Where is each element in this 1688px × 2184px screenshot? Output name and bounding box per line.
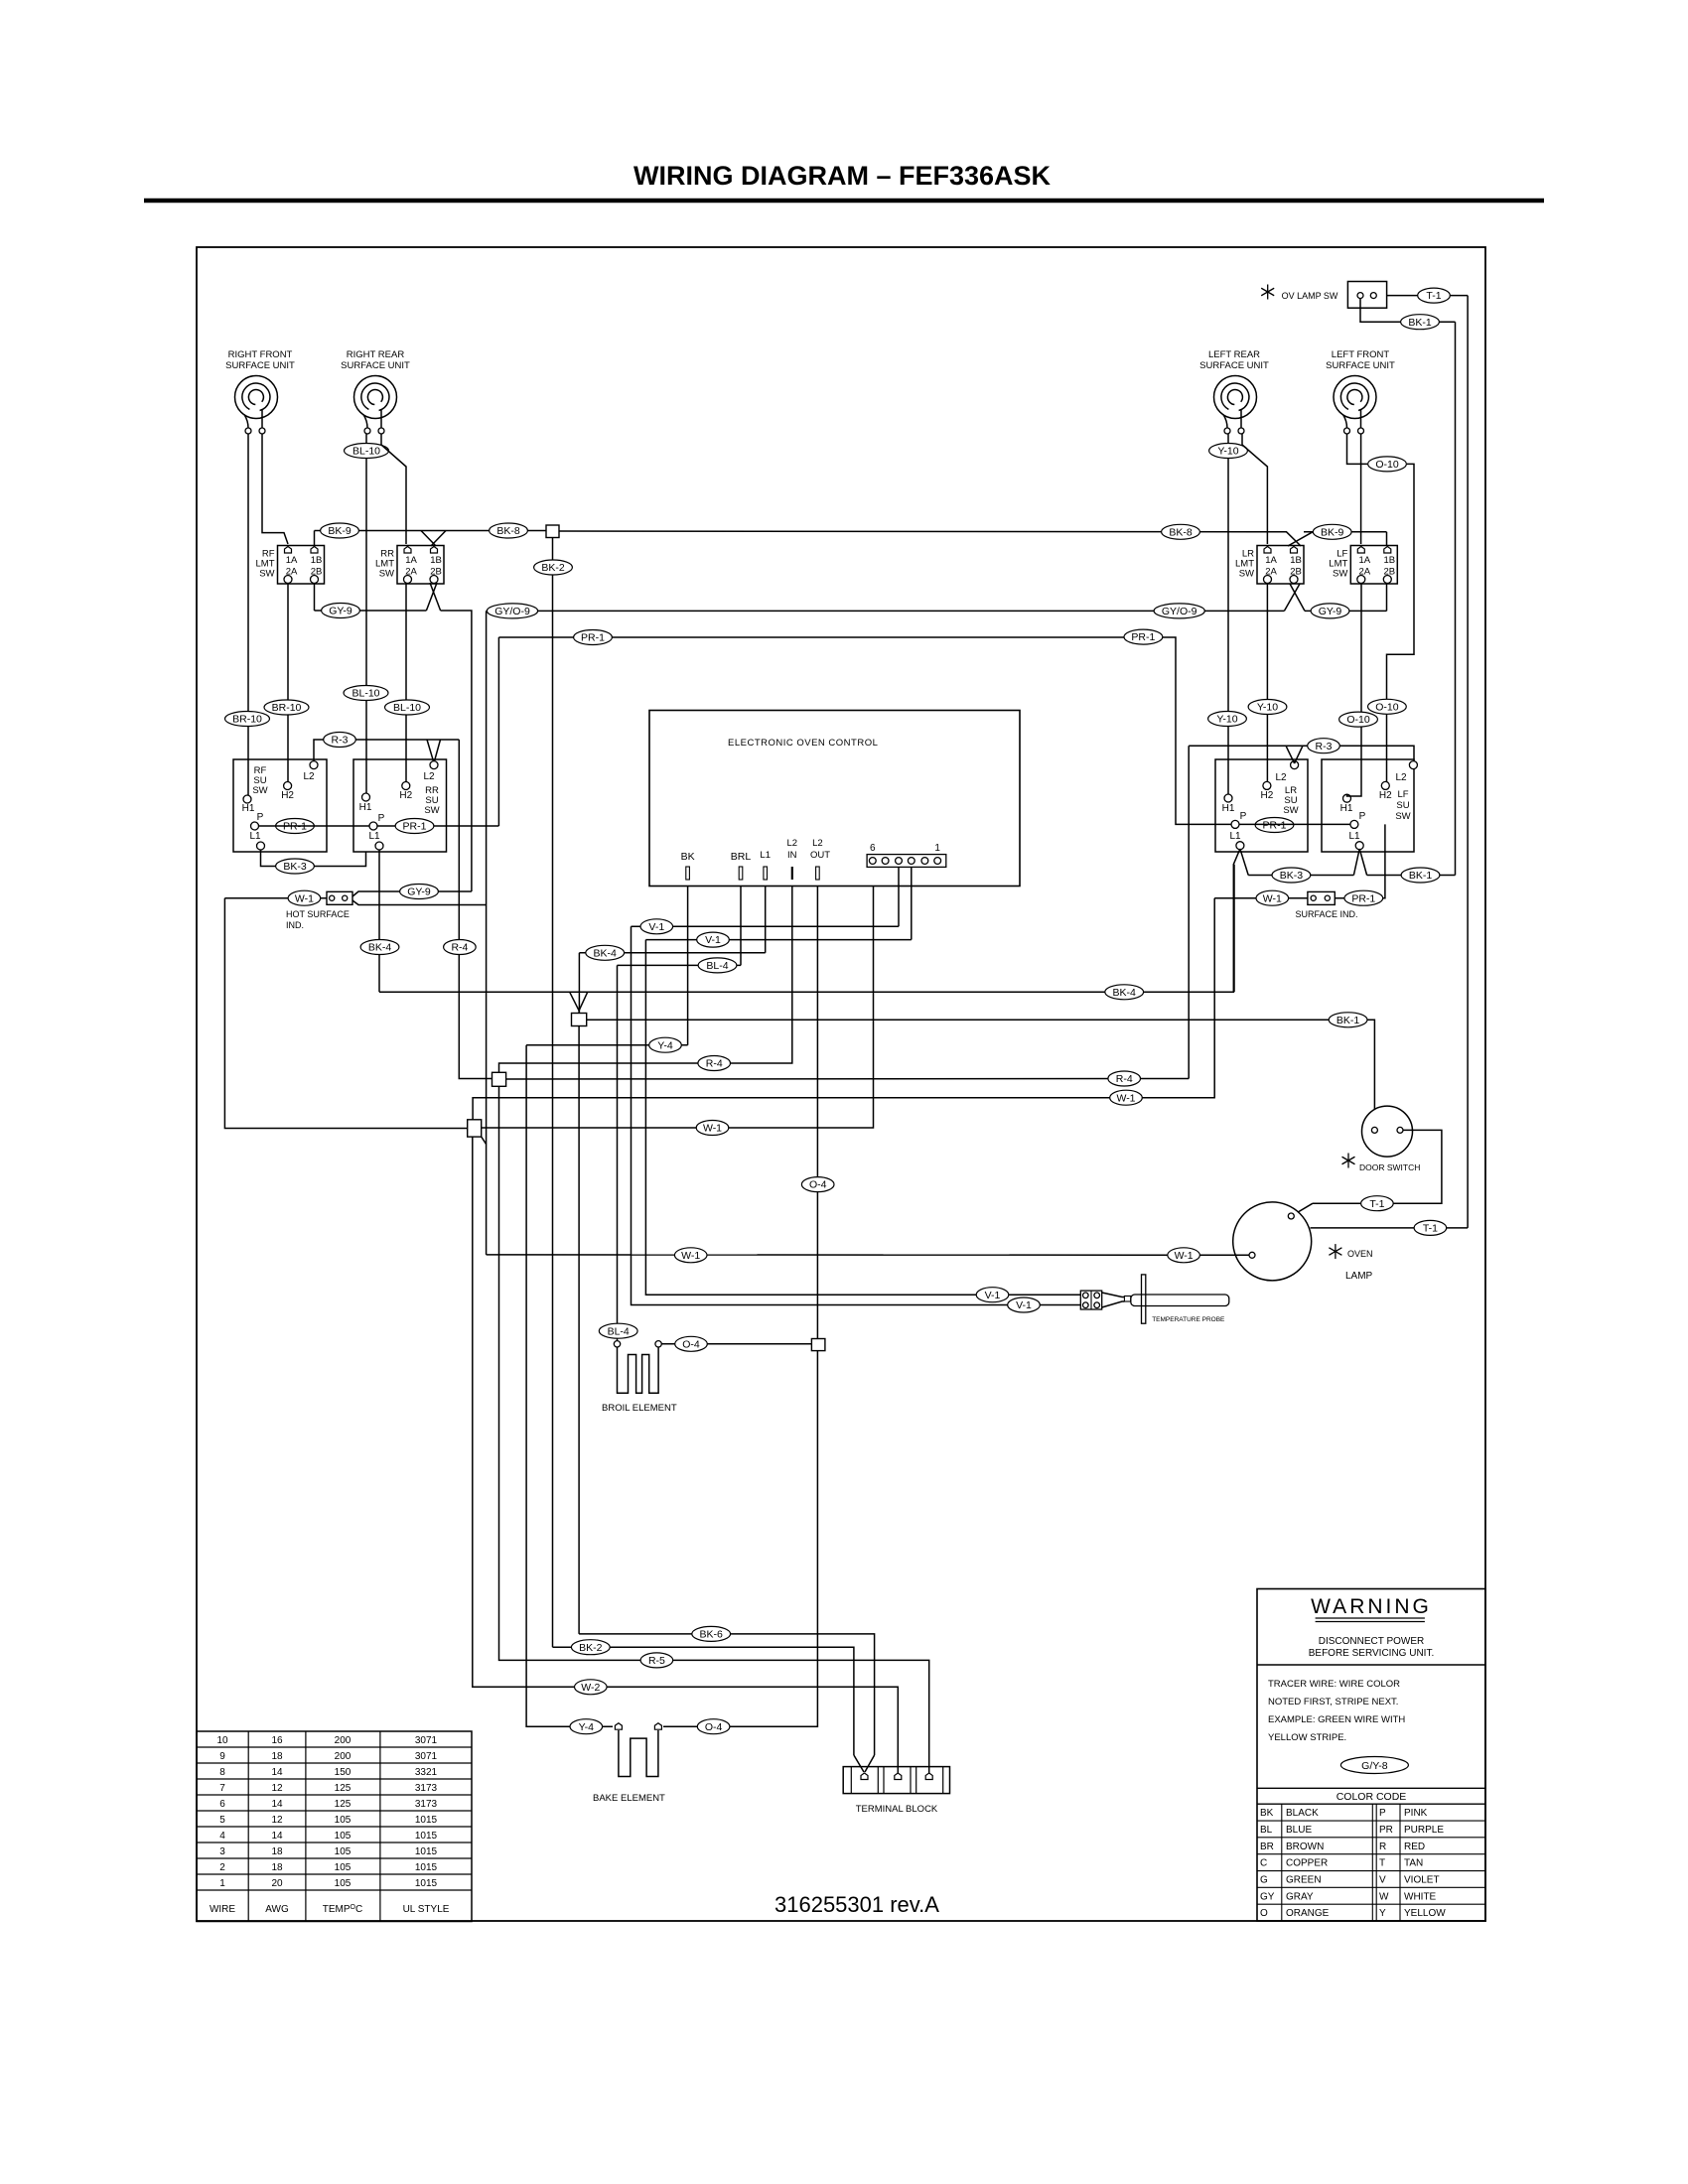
svg-text:3: 3 <box>219 1846 225 1857</box>
label Y-4 upper <box>649 1037 682 1052</box>
svg-text:1: 1 <box>219 1878 225 1889</box>
svg-text:BL-4: BL-4 <box>608 1325 630 1337</box>
label T-1 lamp <box>1414 1220 1447 1235</box>
svg-text:1015: 1015 <box>415 1862 438 1873</box>
svg-text:O-4: O-4 <box>705 1721 723 1733</box>
svg-text:BK-6: BK-6 <box>700 1629 724 1641</box>
LR H1 terminal <box>1224 794 1232 802</box>
svg-text:BK-1: BK-1 <box>1408 317 1432 329</box>
svg-text:GRAY: GRAY <box>1286 1891 1314 1902</box>
svg-text:O-10: O-10 <box>1346 714 1370 726</box>
switch RF SU SW box <box>233 759 327 852</box>
svg-text:BR-10: BR-10 <box>232 714 262 726</box>
label BK-2 lower <box>571 1640 610 1655</box>
wire L2OUT drop <box>816 887 818 1339</box>
sensor TEMPERATURE PROBE <box>1080 1275 1229 1323</box>
svg-text:2A: 2A <box>286 567 298 578</box>
label Y-10 upper <box>1209 444 1248 459</box>
LF L2 terminal <box>1409 761 1417 769</box>
svg-text:COLOR CODE: COLOR CODE <box>1336 1791 1407 1803</box>
svg-text:BL: BL <box>1260 1825 1273 1836</box>
svg-text:BR: BR <box>1260 1842 1274 1852</box>
wire T-1 vertical <box>1467 296 1469 1228</box>
label BK-3 left <box>276 859 315 874</box>
svg-text:2B: 2B <box>1383 567 1395 578</box>
label BL-4 lower <box>599 1323 637 1338</box>
svg-text:SURFACE UNIT: SURFACE UNIT <box>1199 360 1269 371</box>
heating coil LR surface unit <box>1214 376 1257 435</box>
svg-text:WARNING: WARNING <box>1311 1595 1432 1618</box>
svg-text:BK: BK <box>681 851 695 863</box>
svg-text:G/Y-8: G/Y-8 <box>1361 1760 1388 1772</box>
label O-10 on LF H1 wire <box>1339 712 1378 727</box>
broil right terminal <box>655 1341 661 1347</box>
title rule <box>144 199 1544 204</box>
wire GY-9 to hot surface <box>352 891 472 896</box>
svg-text:SW: SW <box>1395 811 1410 822</box>
label BK-1 right <box>1401 868 1440 883</box>
svg-text:SW: SW <box>1239 569 1254 580</box>
bake left terminal <box>615 1723 622 1730</box>
svg-text:P: P <box>257 812 264 823</box>
svg-text:EXAMPLE: GREEN WIRE WITH: EXAMPLE: GREEN WIRE WITH <box>1268 1714 1405 1725</box>
svg-text:150: 150 <box>335 1767 352 1778</box>
svg-text:GY/O-9: GY/O-9 <box>494 606 530 617</box>
svg-text:L2: L2 <box>423 771 435 782</box>
svg-text:AWG: AWG <box>265 1904 289 1915</box>
svg-text:BROIL ELEMENT: BROIL ELEMENT <box>602 1403 677 1414</box>
svg-text:GY-9: GY-9 <box>329 606 352 617</box>
wire RR L1 drop <box>378 850 380 992</box>
svg-text:3071: 3071 <box>415 1735 438 1746</box>
svg-text:WIRE: WIRE <box>210 1904 235 1915</box>
svg-text:1B: 1B <box>1290 555 1302 566</box>
svg-text:IND.: IND. <box>286 920 304 930</box>
heating element BAKE ELEMENT <box>619 1730 658 1777</box>
svg-text:GREEN: GREEN <box>1286 1875 1322 1886</box>
svg-text:O: O <box>1260 1908 1268 1919</box>
LF H2 terminal <box>1381 781 1389 789</box>
label W-1 mid <box>696 1121 729 1136</box>
svg-text:R-4: R-4 <box>451 942 468 954</box>
svg-text:PR-1: PR-1 <box>403 821 427 833</box>
wire T-1 diag to lamp <box>1294 1203 1313 1214</box>
svg-text:BK-3: BK-3 <box>1280 870 1304 882</box>
wire RF 1B up to BK-9 run <box>314 531 316 548</box>
svg-text:1A: 1A <box>1265 555 1277 566</box>
switch LR LMT SW <box>1235 546 1304 585</box>
wire BK-4 run <box>379 991 1234 993</box>
svg-text:1A: 1A <box>286 555 298 566</box>
wire GY-9 into LF 2B <box>1386 584 1388 612</box>
junction square BK <box>572 1014 587 1026</box>
svg-text:H2: H2 <box>1261 790 1274 801</box>
svg-text:C: C <box>1260 1858 1267 1869</box>
svg-text:105: 105 <box>335 1815 352 1826</box>
svg-text:RIGHT REAR: RIGHT REAR <box>347 349 405 360</box>
label GY/O-9 right <box>1154 604 1204 618</box>
svg-text:R: R <box>1379 1842 1386 1852</box>
wire conn4 drop <box>898 868 900 926</box>
svg-text:6: 6 <box>219 1799 225 1810</box>
wire hot surface lower branch <box>352 900 487 905</box>
LR L1 terminal <box>1236 842 1244 850</box>
wire BK-2 drop <box>552 538 554 1648</box>
svg-text:PR-1: PR-1 <box>1351 892 1375 904</box>
label O-10 top <box>1368 457 1407 472</box>
LR H2 terminal <box>1263 781 1271 789</box>
wire W-1 left drop <box>224 898 467 1129</box>
svg-text:O-10: O-10 <box>1375 459 1399 471</box>
label V-1 b <box>697 932 730 947</box>
svg-text:TAN: TAN <box>1404 1858 1423 1869</box>
svg-text:125: 125 <box>335 1799 352 1810</box>
svg-text:WHITE: WHITE <box>1404 1891 1437 1902</box>
svg-text:SURFACE IND.: SURFACE IND. <box>1295 909 1357 919</box>
label R-4 upper <box>698 1056 731 1071</box>
svg-text:12: 12 <box>271 1783 283 1794</box>
svg-text:BK: BK <box>1260 1808 1274 1819</box>
wire W-1 long run <box>473 1098 1215 1120</box>
svg-text:W: W <box>1379 1891 1389 1902</box>
wire BK-9 run right <box>1304 531 1387 533</box>
label BL-10 on RR H2 wire <box>385 700 430 715</box>
label BK-9 right <box>1313 524 1351 539</box>
svg-text:SW: SW <box>379 569 394 580</box>
svg-text:8: 8 <box>219 1767 225 1778</box>
heating coil RR surface unit <box>354 376 397 435</box>
svg-text:L2: L2 <box>303 771 315 782</box>
wire BRL pin drop <box>740 887 742 966</box>
heating coil LF surface unit <box>1334 376 1376 435</box>
svg-text:1015: 1015 <box>415 1878 438 1889</box>
svg-text:5: 5 <box>219 1815 225 1826</box>
svg-text:BK-2: BK-2 <box>579 1642 603 1654</box>
wire W-1 to conn6 <box>482 887 874 1129</box>
label BK-4 branch <box>586 945 625 960</box>
wire RF left terminal to H1 <box>247 434 249 795</box>
wire GY-9 run right <box>1305 610 1387 612</box>
svg-text:H2: H2 <box>1379 790 1392 801</box>
svg-text:T: T <box>1379 1858 1385 1869</box>
svg-text:VIOLET: VIOLET <box>1404 1875 1440 1886</box>
label BR-10 on RF H2 wire <box>264 700 309 715</box>
svg-text:3071: 3071 <box>415 1751 438 1762</box>
label W-1 lamp left <box>674 1248 707 1263</box>
asterisk oven lamp <box>1329 1244 1341 1259</box>
svg-text:W-1: W-1 <box>703 1123 722 1135</box>
wire BK-8 run to right side <box>559 530 1287 533</box>
svg-text:UL STYLE: UL STYLE <box>403 1904 450 1915</box>
svg-text:1015: 1015 <box>415 1831 438 1842</box>
svg-text:TEMPERATURE PROBE: TEMPERATURE PROBE <box>1152 1316 1225 1323</box>
svg-text:HOT SURFACE: HOT SURFACE <box>286 909 350 919</box>
label V-1 a <box>640 919 673 934</box>
wire BL-4 drop <box>617 965 619 1340</box>
svg-text:BL-10: BL-10 <box>352 688 379 700</box>
label PR-1 in LR box <box>1255 818 1294 833</box>
label V-1 probe lower <box>1008 1297 1041 1312</box>
heating coil RF surface unit <box>235 376 278 435</box>
label Y-4 lower <box>570 1719 603 1734</box>
label R-4 long <box>1108 1071 1141 1086</box>
wire GY-9 run <box>315 610 427 612</box>
svg-text:10: 10 <box>216 1735 228 1746</box>
wire LR left terminal to H1 <box>1227 434 1229 794</box>
svg-text:2A: 2A <box>1358 567 1370 578</box>
svg-text:1B: 1B <box>311 555 323 566</box>
svg-text:BK-3: BK-3 <box>283 861 307 873</box>
svg-text:RIGHT FRONT: RIGHT FRONT <box>228 349 293 360</box>
wire PR-1 vertical left <box>497 637 499 826</box>
svg-text:BL-10: BL-10 <box>393 702 421 714</box>
wire BK-4 rise to LR L1 <box>1233 865 1235 993</box>
svg-text:BK-1: BK-1 <box>1409 870 1433 882</box>
wire R-3 right drop <box>1188 746 1190 1078</box>
RF P terminal <box>251 822 259 830</box>
switch LF LMT SW <box>1329 546 1397 585</box>
svg-text:200: 200 <box>335 1751 352 1762</box>
svg-text:GY: GY <box>1260 1891 1275 1902</box>
label BK-4 right <box>1105 985 1144 1000</box>
label R-4 on drop <box>444 940 477 955</box>
svg-text:TERMINAL BLOCK: TERMINAL BLOCK <box>856 1804 938 1815</box>
svg-text:LEFT REAR: LEFT REAR <box>1208 349 1260 360</box>
svg-text:Y: Y <box>1379 1908 1386 1919</box>
svg-text:O-4: O-4 <box>809 1179 827 1191</box>
asterisk ov lamp sw <box>1261 285 1274 300</box>
heating element BROIL ELEMENT <box>618 1347 659 1393</box>
indicator SURFACE IND <box>1308 891 1335 904</box>
svg-text:O-4: O-4 <box>682 1338 700 1350</box>
asterisk door switch <box>1342 1154 1355 1168</box>
label PR-1 mid-left <box>574 630 613 645</box>
svg-text:PR: PR <box>1379 1825 1393 1836</box>
svg-text:1015: 1015 <box>415 1815 438 1826</box>
svg-text:BRL: BRL <box>731 851 752 863</box>
junction square BK-8 <box>546 525 559 538</box>
wire X into RR 1B <box>421 531 436 547</box>
svg-text:W-1: W-1 <box>1116 1092 1135 1104</box>
svg-text:2B: 2B <box>430 567 442 578</box>
svg-text:L1: L1 <box>368 831 380 842</box>
broil left terminal <box>614 1341 620 1347</box>
wire RF 2A to H2 <box>287 584 289 782</box>
indicator HOT SURFACE IND <box>327 891 352 904</box>
label BK-1 long <box>1329 1013 1367 1027</box>
svg-text:4: 4 <box>219 1831 225 1842</box>
svg-text:105: 105 <box>335 1862 352 1873</box>
label BL-10 mid <box>344 686 388 701</box>
wire RR left terminal to H1 <box>365 434 367 793</box>
svg-text:BK-9: BK-9 <box>1321 526 1344 538</box>
svg-text:BK-8: BK-8 <box>1169 526 1193 538</box>
label BK-8 right <box>1162 524 1200 539</box>
svg-text:YELLOW: YELLOW <box>1404 1908 1446 1919</box>
switch RR LMT SW <box>375 546 444 585</box>
wire O-4 broil <box>661 1343 811 1345</box>
label BK-2 on drop <box>534 560 573 575</box>
svg-text:BEFORE SERVICING UNIT.: BEFORE SERVICING UNIT. <box>1309 1648 1435 1659</box>
wire BK-9 into LF 1B <box>1386 532 1388 546</box>
wire R-3 right run <box>1189 746 1414 761</box>
wire X into LR 1B <box>1287 532 1301 546</box>
wire V-1 lower run <box>645 939 911 941</box>
svg-text:2B: 2B <box>1290 567 1302 578</box>
wire BK-1 top <box>1360 299 1456 323</box>
wire L1 V LR left leg <box>1233 849 1240 992</box>
wire door switch to T-1 <box>1313 1130 1442 1203</box>
label BL-10 upper <box>345 444 389 459</box>
svg-text:1015: 1015 <box>415 1846 438 1857</box>
switch DOOR SWITCH <box>1362 1106 1413 1157</box>
wire X below RR 2B <box>426 583 437 611</box>
wire R-3 drop to junction <box>459 740 492 1079</box>
wire LF right terminal to 1A <box>1360 434 1362 544</box>
svg-text:1B: 1B <box>1383 555 1395 566</box>
svg-text:SW: SW <box>259 569 274 580</box>
svg-text:P: P <box>1240 811 1247 822</box>
svg-text:W-2: W-2 <box>581 1682 600 1694</box>
svg-text:WIRING DIAGRAM – FEF336ASK: WIRING DIAGRAM – FEF336ASK <box>633 161 1052 191</box>
svg-text:V-1: V-1 <box>985 1290 1001 1301</box>
wire RF 2B to GY-9 run <box>314 584 316 611</box>
svg-text:V-1: V-1 <box>1016 1299 1032 1311</box>
svg-text:R-4: R-4 <box>706 1058 723 1070</box>
svg-text:ELECTRONIC OVEN CONTROL: ELECTRONIC OVEN CONTROL <box>728 738 878 749</box>
svg-text:105: 105 <box>335 1831 352 1842</box>
svg-text:SW: SW <box>1283 805 1298 816</box>
svg-text:SU: SU <box>1396 800 1409 811</box>
wire BK-3 right run <box>1248 875 1353 877</box>
svg-text:G: G <box>1260 1875 1268 1886</box>
LF H1 terminal <box>1343 794 1351 802</box>
LR P terminal <box>1231 820 1239 828</box>
label GY-9 left <box>322 604 360 618</box>
svg-text:P: P <box>1359 811 1366 822</box>
label GY/O-9 left <box>487 604 537 618</box>
svg-text:L2: L2 <box>1275 772 1287 783</box>
RR L1 terminal <box>375 842 383 850</box>
LR L2 terminal <box>1291 761 1299 769</box>
wire P row left <box>259 825 499 827</box>
svg-text:BK-2: BK-2 <box>541 562 565 574</box>
lamp OVEN LAMP <box>1233 1202 1312 1281</box>
svg-text:OVEN: OVEN <box>1347 1249 1373 1259</box>
wire PR-1 long run <box>498 637 1231 824</box>
label T-1 door <box>1361 1196 1394 1211</box>
svg-text:Y-10: Y-10 <box>1257 702 1278 714</box>
svg-text:T-1: T-1 <box>1426 290 1441 302</box>
wire X below LR 2B <box>1284 584 1300 611</box>
label O-4 bake <box>697 1719 730 1734</box>
switch LR SU SW box <box>1215 759 1308 852</box>
RR L2 terminal <box>430 761 438 769</box>
wire BK-4 branch run <box>579 952 765 954</box>
svg-text:12: 12 <box>271 1815 283 1826</box>
wire V into LR L2 <box>1286 746 1295 763</box>
wire O-10 to L2 drop <box>1387 464 1415 781</box>
svg-text:BLUE: BLUE <box>1286 1825 1312 1836</box>
wire W junction diagonal <box>482 1137 487 1144</box>
label PR-1 in RF box <box>276 819 315 834</box>
wire BK-2 run <box>553 1647 854 1755</box>
junction square W <box>468 1120 482 1137</box>
svg-text:SURFACE UNIT: SURFACE UNIT <box>225 360 295 371</box>
svg-text:H2: H2 <box>281 790 294 801</box>
svg-text:COPPER: COPPER <box>1286 1858 1328 1869</box>
label W-2 <box>575 1680 608 1695</box>
wire GY/O-9 drop <box>486 611 488 1255</box>
wire W-2 drop <box>473 1137 899 1773</box>
wire PR-1 surface ind <box>1335 824 1385 897</box>
svg-text:NOTED FIRST, STRIPE NEXT.: NOTED FIRST, STRIPE NEXT. <box>1268 1697 1398 1707</box>
svg-text:Y-4: Y-4 <box>579 1721 595 1733</box>
svg-text:Y-10: Y-10 <box>1217 446 1238 458</box>
svg-text:14: 14 <box>271 1799 283 1810</box>
wire BK-6 drop <box>578 1026 580 1634</box>
svg-text:PR-1: PR-1 <box>581 632 605 644</box>
svg-text:L1: L1 <box>1229 831 1241 842</box>
svg-text:BK-4: BK-4 <box>1113 987 1137 999</box>
svg-text:H1: H1 <box>359 802 372 813</box>
wire R-5 drop <box>499 1086 929 1773</box>
svg-text:PINK: PINK <box>1404 1808 1428 1819</box>
svg-text:BL-10: BL-10 <box>352 446 380 458</box>
svg-text:2: 2 <box>219 1862 225 1873</box>
svg-text:PURPLE: PURPLE <box>1404 1825 1444 1836</box>
svg-text:Y-4: Y-4 <box>657 1039 673 1051</box>
svg-text:105: 105 <box>335 1878 352 1889</box>
svg-text:316255301 rev.A: 316255301 rev.A <box>774 1892 939 1917</box>
terminal block <box>843 1767 949 1794</box>
wire LF left terminal to O-10 <box>1347 434 1368 464</box>
wire conn3 drop <box>911 868 913 940</box>
svg-text:O-10: O-10 <box>1375 701 1399 713</box>
svg-text:6: 6 <box>870 843 876 854</box>
svg-text:V: V <box>1379 1875 1386 1886</box>
label W-1 hot surface <box>288 890 321 905</box>
svg-text:W-1: W-1 <box>681 1250 700 1262</box>
wire R-3 run left <box>314 740 459 761</box>
svg-text:W-1: W-1 <box>295 892 314 904</box>
label Y-10 mid <box>1208 712 1247 727</box>
warning and color code box <box>1257 1589 1485 1922</box>
label GY-9 right <box>1311 604 1349 618</box>
wire RR 2B right branch <box>441 611 472 891</box>
RR P terminal <box>369 822 377 830</box>
wire GY/O-9 run <box>487 610 1285 612</box>
label Y-10 on LR H2 wire <box>1248 700 1287 715</box>
svg-text:P: P <box>1379 1808 1386 1819</box>
wire R-4 upper run <box>499 887 792 1073</box>
svg-text:R-5: R-5 <box>648 1655 665 1667</box>
svg-text:H2: H2 <box>399 790 412 801</box>
svg-text:P: P <box>378 813 385 824</box>
svg-text:3321: 3321 <box>415 1767 438 1778</box>
wire W-1 surface ind left <box>1214 897 1308 899</box>
svg-text:PR-1: PR-1 <box>1263 820 1287 832</box>
svg-text:3173: 3173 <box>415 1799 438 1810</box>
svg-text:GY-9: GY-9 <box>407 887 431 898</box>
wire L2OUT to bake <box>663 1351 817 1727</box>
wire R-4 long run <box>506 1078 1190 1081</box>
wire BL-4 run <box>618 964 742 966</box>
svg-text:BK-4: BK-4 <box>594 947 618 959</box>
svg-text:2B: 2B <box>311 567 323 578</box>
wire LR 2A to H2 <box>1266 584 1268 781</box>
electronic oven control U1 <box>649 711 1020 887</box>
